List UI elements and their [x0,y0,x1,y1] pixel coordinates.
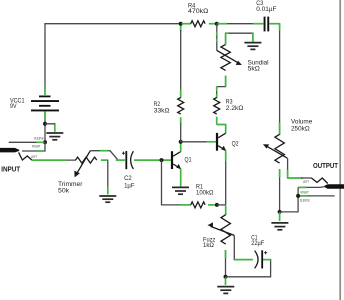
wire Q1 collector node to Q2 base [181,141,208,143]
svg-text:LEFT: LEFT [31,155,37,159]
trimmer wiper tap [90,151,117,160]
potentiometer Fuzz 1k [225,206,227,216]
wire sleeve row [298,195,335,197]
resistor R3 2.2k [216,87,218,98]
resistor R4 470k [182,23,192,25]
resistor R1 100k [162,160,182,205]
wire battery negative down [44,111,46,142]
ground output [271,223,288,230]
node R1 right junction [215,203,219,207]
output tip contact [311,178,327,184]
wire Sundial bottom to R3 [217,76,226,87]
transistor Q1 [171,151,173,169]
svg-text:2.2kΩ: 2.2kΩ [226,105,244,112]
svg-text:22µF: 22µF [251,240,264,247]
node sleeve junction [43,140,47,144]
wire Fuzz bottom down [225,250,227,277]
svg-text:C2: C2 [124,175,132,182]
capacitor C2 1uF electrolytic [116,159,125,161]
wire green segment below battery [44,111,46,120]
wire ring row [298,186,325,189]
svg-text:SLEEVE: SLEEVE [300,198,310,202]
wire sleeve row [9,141,45,143]
ground trimmer [99,196,116,202]
resistor R2 33k [180,24,182,32]
wire ring-sleeve vertical to corner [280,187,299,212]
wire input tip to trimmer [32,159,76,161]
ground Sundial [244,43,261,50]
battery VCC1 [31,96,59,112]
svg-text:RIGHT: RIGHT [301,190,309,194]
trimmer 50k potentiometer [76,157,97,163]
Sundial wiper arrow [217,50,239,63]
node Fuzz bottom junction [224,275,228,279]
wire C3 right then down to volume [269,24,279,135]
node Q1 collector junction [179,140,183,144]
transistor Q2 [216,133,218,151]
wire Q1 collector up [180,142,182,152]
svg-text:50k: 50k [58,188,70,195]
wire C1 right loop to Fuzz bottom [226,260,271,277]
output plug body [324,184,344,189]
svg-text:RIGHT: RIGHT [32,145,40,149]
C1 plus sign [264,251,267,254]
input tip contact [19,152,32,160]
svg-text:1kΩ: 1kΩ [203,242,214,249]
node sleeve junction [296,194,300,198]
Q2 emitter arrowhead [221,146,226,151]
C2 plus sign [122,152,125,155]
wire C2 to Q1 base [134,159,171,161]
wire top rail from battery to R4 [45,24,181,90]
svg-text:5kΩ: 5kΩ [248,66,260,73]
svg-text:9V: 9V [10,103,17,110]
Volume wiper arrow [266,146,287,158]
ground battery [46,133,63,140]
node battery minus junction [43,122,47,126]
svg-text:SLEEVE: SLEEVE [34,136,44,140]
svg-text:470kΩ: 470kΩ [188,8,208,15]
node Volume bottom junction [278,210,282,214]
svg-text:250kΩ: 250kΩ [291,125,310,132]
wire Sundial top to ground [226,33,253,44]
svg-text:Q1: Q1 [185,156,192,163]
Fuzz wiper arrow [211,226,235,235]
window border right edge [339,0,341,300]
wire green segment above battery [44,87,46,96]
svg-text:Q2: Q2 [232,140,239,147]
wire to output ground [279,213,281,222]
svg-text:100kΩ: 100kΩ [196,190,214,197]
capacitor C1 22uF electrolytic [255,251,258,269]
wire wiper feed from R4 node [216,24,218,51]
node R4 right junction [215,22,219,26]
svg-text:33kΩ: 33kΩ [154,108,170,115]
Sundial body zigzag [221,44,230,70]
wire sleeve to ring [22,142,45,151]
wire trimmer right to ground [101,160,108,188]
ground Fuzz [217,287,234,294]
wire Fuzz bottom to ground [225,278,227,286]
capacitor C3 0.01uF [264,17,266,32]
wire Volume bottom down [279,169,281,212]
input plug body [0,148,19,153]
svg-text:OUTPUT: OUTPUT [313,161,338,170]
wire Q2 emitter down [225,150,227,205]
node Q1 base junction [160,158,164,162]
Fuzz wiper tap to C1 [234,235,253,259]
wire Q1 emitter to ground [180,169,182,187]
svg-text:0.01µF: 0.01µF [256,6,276,13]
svg-text:1µF: 1µF [124,183,134,190]
Volume wiper tap [287,158,303,178]
wire R3 bottom jog to Q2 collector [217,125,226,134]
svg-text:LEFT: LEFT [303,180,309,184]
node R4 left junction [179,22,183,26]
wire jog to ground [45,124,55,126]
trimmer wiper arrow [77,151,91,174]
ground Q1 emitter [172,187,189,194]
Q1 emitter arrowhead [176,164,181,169]
wire R4 to C3 [217,23,254,25]
svg-text:INPUT: INPUT [1,165,20,174]
potentiometer Volume 250k [275,134,284,163]
